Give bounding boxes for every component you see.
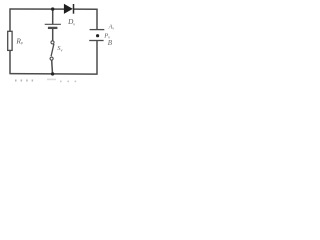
- wire left vertical lower: [9, 50, 11, 73]
- node junction dot bottom: [51, 72, 54, 75]
- capacitor plate B (bottom): [89, 39, 113, 47]
- wire right vertical lower: [96, 41, 98, 75]
- battery cell: [45, 24, 61, 28]
- wire left vertical upper: [9, 8, 11, 31]
- wire right vertical upper: [96, 9, 98, 30]
- switch S: [50, 41, 62, 60]
- wire bottom horizontal: [9, 73, 97, 76]
- resistor R: [8, 31, 24, 50]
- particle P between plates: [96, 33, 110, 40]
- wire battery to switch: [52, 29, 54, 42]
- wire top horizontal left of diode: [10, 8, 65, 10]
- wire switch to bottom: [51, 60, 54, 74]
- diode D: [64, 4, 75, 27]
- wire middle branch top: [52, 9, 54, 24]
- capacitor plate A (top): [90, 23, 115, 30]
- node junction dot top: [51, 7, 54, 10]
- faint cropped caption marks: [15, 79, 76, 83]
- svg-text:B: B: [108, 39, 113, 47]
- wire top horizontal right of diode: [74, 8, 98, 10]
